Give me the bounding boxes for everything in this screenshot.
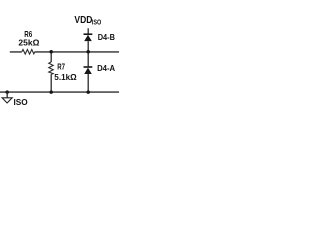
svg-text:ISO: ISO — [14, 97, 28, 107]
svg-text:R7: R7 — [57, 62, 65, 72]
svg-text:VDD: VDD — [74, 15, 92, 26]
svg-text:25kΩ: 25kΩ — [18, 38, 39, 48]
svg-text:5.1kΩ: 5.1kΩ — [54, 72, 77, 82]
svg-text:D4-A: D4-A — [97, 63, 115, 73]
svg-text:D4-B: D4-B — [98, 32, 115, 42]
svg-text:ISO: ISO — [92, 18, 102, 27]
